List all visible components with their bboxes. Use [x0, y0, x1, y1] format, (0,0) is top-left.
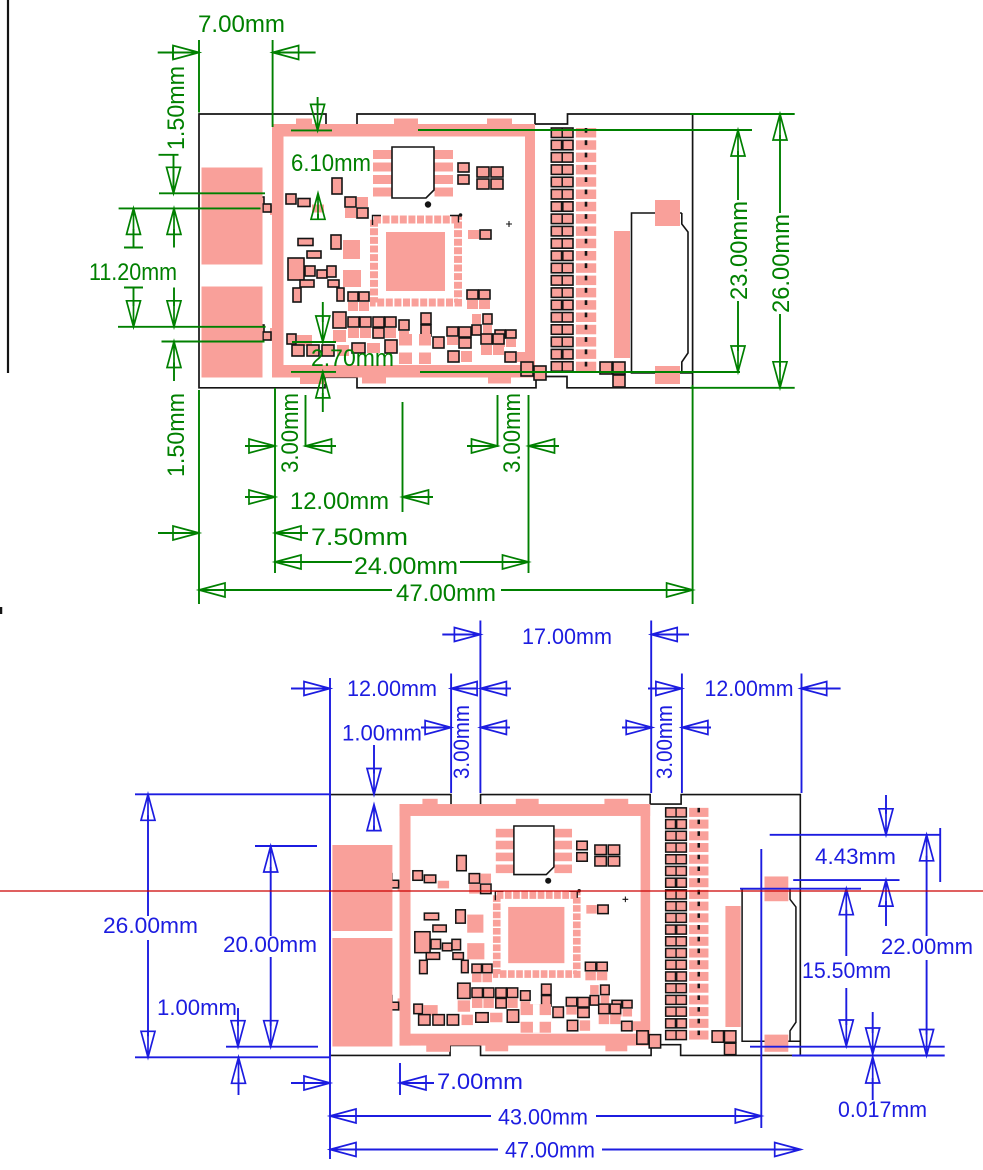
dim 12.00mm [245, 496, 275, 498]
svg-text:1.00mm: 1.00mm [157, 995, 237, 1020]
red centerline [0, 890, 983, 892]
svg-text:7.00mm: 7.00mm [198, 11, 285, 38]
dim 3.00mm left [245, 445, 275, 447]
svg-text:1.00mm: 1.00mm [342, 721, 422, 746]
top view edge connector copper [202, 168, 263, 265]
svg-text:26.00mm: 26.00mm [768, 214, 795, 313]
dim 12.00mm right [648, 688, 682, 690]
svg-text:3.00mm: 3.00mm [499, 393, 526, 473]
dim 1.50mm bottom [167, 342, 181, 368]
horizontal reference lines [135, 793, 330, 795]
dim 6.10mm [291, 129, 332, 131]
svg-text:15.50mm: 15.50mm [802, 958, 891, 983]
dim 11.20mm [127, 208, 141, 234]
extension lines bottom view [329, 678, 331, 1159]
dim 7.00mm [158, 52, 199, 54]
dim 15.50mm [839, 889, 853, 915]
svg-text:22.00mm: 22.00mm [881, 934, 973, 959]
dim 17.00mm [442, 634, 480, 636]
svg-text:12.00mm: 12.00mm [290, 488, 389, 515]
svg-text:47.00mm: 47.00mm [505, 1138, 595, 1163]
dim 22.00mm [920, 835, 934, 861]
dim 7.00mm bottom [291, 1082, 330, 1084]
svg-text:23.00mm: 23.00mm [726, 201, 753, 300]
svg-text:4.43mm: 4.43mm [815, 844, 896, 869]
dim 0.017mm [872, 1012, 874, 1033]
svg-text:6.10mm: 6.10mm [291, 150, 371, 177]
svg-text:12.00mm: 12.00mm [347, 676, 437, 701]
svg-text:26.00mm: 26.00mm [103, 913, 198, 938]
svg-text:7.00mm: 7.00mm [437, 1069, 523, 1094]
dim 12.00mm left [291, 688, 330, 690]
svg-text:17.00mm: 17.00mm [522, 624, 612, 649]
svg-text:1.50mm: 1.50mm [163, 393, 190, 477]
dim 7.50mm [158, 532, 199, 534]
svg-text:3.00mm: 3.00mm [277, 393, 304, 473]
dim 24.00mm [275, 555, 301, 569]
svg-text:3.00mm: 3.00mm [449, 705, 474, 779]
extension lines A-D [159, 192, 265, 194]
window border artifact [7, 0, 9, 373]
bottom view edge connector copper [332, 845, 392, 931]
svg-text:12.00mm: 12.00mm [705, 676, 794, 701]
svg-text:43.00mm: 43.00mm [498, 1105, 588, 1130]
lower extension lines [198, 390, 200, 604]
svg-text:3.00mm: 3.00mm [652, 705, 677, 779]
dim 26.00mm [690, 113, 795, 115]
dim 43.00mm [330, 1109, 356, 1123]
dim 23.00mm [418, 129, 752, 131]
svg-text:20.00mm: 20.00mm [223, 932, 317, 957]
dim 47.00mm [199, 583, 225, 597]
dim 47.00mm [330, 1143, 356, 1157]
dim 3.00mm right [622, 727, 652, 729]
svg-text:24.00mm: 24.00mm [354, 553, 458, 580]
svg-text:47.00mm: 47.00mm [396, 580, 496, 607]
svg-text:0.017mm: 0.017mm [838, 1097, 927, 1122]
svg-text:2.70mm: 2.70mm [311, 345, 394, 372]
dim 20.00mm [264, 846, 278, 872]
dim 26.00mm [141, 794, 155, 820]
svg-text:7.50mm: 7.50mm [311, 524, 408, 551]
svg-text:1.50mm: 1.50mm [163, 66, 190, 150]
bottom view board [330, 795, 800, 1056]
dim 3.00mm right [467, 445, 498, 447]
dim 2.70mm [292, 341, 336, 343]
dim 3.00mm left [421, 727, 451, 729]
top view board [199, 114, 693, 388]
svg-text:11.20mm: 11.20mm [89, 259, 177, 286]
